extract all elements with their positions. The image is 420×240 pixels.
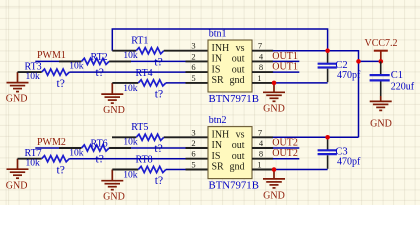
svg-text:GND: GND xyxy=(6,180,28,191)
designator btn2 xyxy=(209,115,227,126)
label RT8 xyxy=(136,155,153,166)
svg-text:10k: 10k xyxy=(26,159,41,169)
svg-text:GND: GND xyxy=(103,105,125,116)
wire GND to RT7 xyxy=(18,158,42,160)
svg-text:t?: t? xyxy=(57,78,65,90)
svg-text:btn1: btn1 xyxy=(209,28,227,39)
value 10k of RT8 xyxy=(123,171,138,181)
value 470pf of C2 xyxy=(337,70,361,81)
svg-text:out: out xyxy=(232,54,245,65)
value 220uf of C1 xyxy=(391,82,415,93)
svg-text:IS: IS xyxy=(212,64,221,75)
svg-text:7: 7 xyxy=(258,41,262,51)
label C1 xyxy=(391,70,403,81)
svg-text:vs: vs xyxy=(236,130,245,141)
resistor RT7 xyxy=(42,156,70,162)
junction pin7/C top btn2 xyxy=(325,135,330,140)
svg-text:IN: IN xyxy=(212,54,223,65)
svg-text:VCC7.2: VCC7.2 xyxy=(365,38,398,49)
value t? of RT3 xyxy=(57,78,65,90)
wire OUT2 pin8 xyxy=(273,158,300,160)
wire OUT1 pin4 xyxy=(273,60,300,62)
wire RT8 to pin 5 xyxy=(166,169,208,171)
svg-text:gnd: gnd xyxy=(230,162,245,173)
ground at RT3 xyxy=(6,72,29,105)
svg-text:out: out xyxy=(232,151,245,162)
wire OUT2 pin4 xyxy=(273,147,300,149)
pin 8 stub of btn2 xyxy=(252,158,273,160)
svg-text:RT1: RT1 xyxy=(131,36,148,47)
svg-text:10k: 10k xyxy=(26,72,41,82)
wire RT4 to pin 5 xyxy=(166,82,208,84)
resistor RT1 xyxy=(136,48,164,54)
svg-text:3: 3 xyxy=(191,127,195,137)
value t? of RT6 xyxy=(96,153,104,165)
wire RT1 to pin 3 xyxy=(164,50,208,52)
value 10k of RT7 xyxy=(26,159,41,169)
svg-text:t?: t? xyxy=(155,175,163,187)
value 10k of RT5 xyxy=(123,138,137,148)
svg-text:out: out xyxy=(232,140,245,151)
capacitor C3 xyxy=(274,137,337,169)
svg-text:RT4: RT4 xyxy=(136,68,153,79)
junction VS corner xyxy=(356,59,361,64)
pin numbers 7 4 8 1 of btn1 xyxy=(257,41,264,83)
svg-text:RT8: RT8 xyxy=(136,155,153,166)
value 10k of RT1 xyxy=(123,51,137,61)
pin 7 stub of btn2 xyxy=(252,136,273,138)
ground at RT7 xyxy=(6,159,29,192)
wire VS vertical down xyxy=(358,61,360,137)
net label OUT2 upper xyxy=(272,138,298,149)
svg-text:1: 1 xyxy=(257,73,261,83)
ground at RT4 xyxy=(101,83,125,116)
wire GND to RT4 xyxy=(112,82,138,84)
wire pin7 btn2 to VS xyxy=(273,136,359,138)
svg-text:4: 4 xyxy=(259,138,264,148)
svg-text:t?: t? xyxy=(154,143,162,155)
svg-text:t?: t? xyxy=(154,56,162,68)
svg-text:BTN7971B: BTN7971B xyxy=(209,93,259,105)
svg-text:6: 6 xyxy=(191,149,195,159)
wire GND to RT3 xyxy=(18,71,42,73)
svg-text:470pf: 470pf xyxy=(337,157,361,168)
value 10k of RT3 xyxy=(26,72,41,82)
svg-text:GND: GND xyxy=(263,190,285,201)
pin numbers 3 2 6 5 of btn1 xyxy=(191,41,195,83)
resistor RT5 xyxy=(136,134,164,140)
svg-text:10k: 10k xyxy=(69,62,84,72)
svg-text:8: 8 xyxy=(259,149,263,159)
svg-text:IS: IS xyxy=(212,151,221,162)
wire RT6 to pin 2 xyxy=(109,147,208,149)
ground at pin1 btn1 xyxy=(263,83,285,115)
svg-text:OUT1: OUT1 xyxy=(272,51,298,62)
resistor RT2 xyxy=(82,58,110,64)
wire RT1 left lead xyxy=(112,50,136,52)
pin 4 stub of btn1 xyxy=(252,60,273,62)
svg-text:4: 4 xyxy=(259,51,264,61)
svg-text:RT7: RT7 xyxy=(25,148,42,159)
svg-text:GND: GND xyxy=(370,118,392,129)
junction VCC/C1 xyxy=(379,59,384,64)
svg-text:btn2: btn2 xyxy=(209,115,227,126)
wire PWM2 stub xyxy=(35,147,81,149)
svg-text:RT6: RT6 xyxy=(91,139,108,150)
wire RT7 to pin 6 xyxy=(69,158,208,160)
svg-text:SR: SR xyxy=(212,162,225,173)
wire PWM1 stub xyxy=(35,60,81,62)
svg-text:470pf: 470pf xyxy=(337,70,361,81)
pin numbers 7 4 8 1 of btn2 xyxy=(257,127,264,169)
value t? of RT8 xyxy=(155,175,163,187)
svg-text:OUT2: OUT2 xyxy=(272,148,298,159)
net label PWM1 xyxy=(37,50,66,61)
svg-text:10k: 10k xyxy=(123,138,137,148)
resistor RT4 xyxy=(138,80,166,86)
label C2 xyxy=(335,60,347,71)
svg-text:SR: SR xyxy=(212,75,225,86)
label RT7 xyxy=(25,148,42,159)
part number BTN7971B of btn2 xyxy=(209,180,259,192)
net label PWM2 xyxy=(37,137,66,148)
power symbol VCC7.2 xyxy=(365,38,398,61)
svg-text:6: 6 xyxy=(191,62,195,72)
capacitor C1 xyxy=(370,61,390,96)
svg-text:INH: INH xyxy=(212,43,230,54)
svg-text:IN: IN xyxy=(212,140,223,151)
resistor RT6 xyxy=(82,145,110,151)
svg-text:PWM2: PWM2 xyxy=(37,137,66,148)
label RT2 xyxy=(91,52,108,63)
op-amp U1 BTN7971B body btn1 xyxy=(208,40,252,92)
value t? of RT1 xyxy=(154,56,162,68)
svg-text:RT5: RT5 xyxy=(131,122,148,133)
svg-text:8: 8 xyxy=(259,62,263,72)
wire OUT1 pin8 xyxy=(273,71,300,73)
label RT3 xyxy=(25,62,42,73)
svg-text:PWM1: PWM1 xyxy=(37,50,66,61)
svg-text:t?: t? xyxy=(57,165,65,177)
svg-text:5: 5 xyxy=(191,73,195,83)
pin 7 stub of btn1 xyxy=(252,50,273,52)
pin 1 stub of btn2 xyxy=(252,169,274,171)
svg-text:10k: 10k xyxy=(123,171,138,181)
pin 4 stub of btn2 xyxy=(252,147,273,149)
svg-text:10k: 10k xyxy=(123,84,138,94)
wire GND to RT8 xyxy=(112,169,138,171)
label RT4 xyxy=(136,68,153,79)
svg-text:220uf: 220uf xyxy=(391,82,415,93)
part number BTN7971B of btn1 xyxy=(209,93,259,105)
svg-text:2: 2 xyxy=(191,138,195,148)
capacitor C2 xyxy=(274,51,337,83)
value 10k of RT4 xyxy=(123,84,138,94)
svg-text:INH: INH xyxy=(212,130,230,141)
value 10k of RT6 xyxy=(69,148,84,158)
svg-text:GND: GND xyxy=(263,104,285,115)
net label OUT1 upper xyxy=(272,51,298,62)
svg-text:7: 7 xyxy=(258,127,262,137)
pin numbers 3 2 6 5 of btn2 xyxy=(191,127,195,169)
svg-text:3: 3 xyxy=(191,41,195,51)
ground at pin1 btn2 xyxy=(263,170,285,202)
net label OUT2 lower xyxy=(272,148,298,159)
svg-text:C1: C1 xyxy=(391,70,403,81)
svg-text:BTN7971B: BTN7971B xyxy=(209,180,259,192)
svg-text:5: 5 xyxy=(191,160,195,170)
svg-text:out: out xyxy=(232,64,245,75)
pin 1 stub of btn1 xyxy=(252,82,274,84)
ground at RT8 xyxy=(101,170,125,203)
svg-text:OUT1: OUT1 xyxy=(272,62,298,73)
svg-text:gnd: gnd xyxy=(230,75,245,86)
label RT5 xyxy=(131,122,148,133)
junction pin1 gnd btn1 xyxy=(272,81,277,86)
svg-text:10k: 10k xyxy=(123,51,137,61)
svg-text:RT2: RT2 xyxy=(91,52,108,63)
wire pin7 btn1 to VS xyxy=(273,51,381,62)
value t? of RT2 xyxy=(96,67,104,79)
label RT6 xyxy=(91,139,108,150)
wire RT3 to pin 6 xyxy=(69,71,208,73)
net label OUT1 lower xyxy=(272,62,298,73)
label C3 xyxy=(335,147,347,158)
svg-text:1: 1 xyxy=(257,160,261,170)
svg-text:GND: GND xyxy=(6,94,28,105)
value t? of RT4 xyxy=(155,89,163,101)
svg-text:GND: GND xyxy=(103,192,125,203)
op-amp U2 BTN7971B body btn2 xyxy=(208,127,252,179)
junction pin7/C top btn1 xyxy=(325,48,330,53)
junction pin1 gnd btn2 xyxy=(272,167,277,172)
svg-text:RT3: RT3 xyxy=(25,62,42,73)
value 10k of RT2 xyxy=(69,62,84,72)
wire RT1 pullup loop to VS net xyxy=(112,29,327,51)
value t? of RT5 xyxy=(154,143,162,155)
svg-text:vs: vs xyxy=(236,43,245,54)
svg-text:t?: t? xyxy=(155,89,163,101)
pin 8 stub of btn1 xyxy=(252,71,273,73)
svg-text:2: 2 xyxy=(191,51,195,61)
svg-text:OUT2: OUT2 xyxy=(272,138,298,149)
wire stub left of RT5 xyxy=(112,136,136,138)
resistor RT8 xyxy=(138,166,166,172)
label RT1 xyxy=(131,36,148,47)
value 470pf of C3 xyxy=(337,157,361,168)
wire RT2 to pin 2 xyxy=(109,60,208,62)
svg-text:10k: 10k xyxy=(69,148,84,158)
ground at C1 xyxy=(370,96,392,129)
value t? of RT7 xyxy=(57,165,65,177)
designator btn1 xyxy=(209,28,227,39)
resistor RT3 xyxy=(42,69,70,75)
wire RT5 to pin 3 xyxy=(164,136,208,138)
